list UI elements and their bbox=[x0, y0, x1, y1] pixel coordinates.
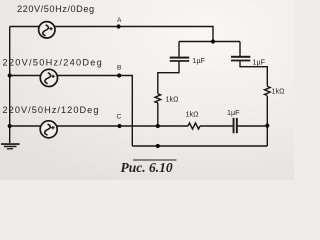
wire phase A horizontal bbox=[10, 27, 213, 42]
svg-text:220V/50Hz/0Deg: 220V/50Hz/0Deg bbox=[17, 4, 95, 14]
wire left rail bbox=[9, 27, 11, 144]
wire bottom return bbox=[132, 145, 267, 147]
resistor R3 horizontal zigzag bbox=[188, 123, 200, 129]
caption overline bbox=[133, 159, 177, 161]
capacitor C1 plates bbox=[170, 57, 190, 59]
wire phase C between resistor and capacitor bbox=[200, 125, 233, 127]
AC source V3 bbox=[40, 121, 57, 138]
svg-text:1kΩ: 1kΩ bbox=[166, 95, 180, 104]
ground bbox=[1, 143, 20, 145]
svg-text:A: A bbox=[117, 17, 122, 24]
junction dot R1 / wire C bbox=[156, 124, 160, 128]
wire capacitor C2 top lead bbox=[239, 42, 241, 57]
node C junction dot bbox=[117, 124, 121, 128]
svg-text:Рuc. 6.10: Рuc. 6.10 bbox=[121, 160, 173, 175]
svg-text:B: B bbox=[117, 65, 122, 72]
AC source V1 bbox=[39, 22, 55, 38]
svg-text:C: C bbox=[117, 114, 122, 121]
resistor R2 vertical zigzag bbox=[264, 86, 270, 95]
wire R1 bottom lead bbox=[157, 103, 159, 126]
wire capacitor C1 top lead bbox=[178, 42, 180, 57]
wire capacitor C2 bottom lead with jog bbox=[240, 61, 267, 86]
junction dot node X bbox=[265, 124, 269, 128]
node A junction dot bbox=[117, 24, 121, 28]
wire phase B horizontal and drop bbox=[10, 76, 133, 147]
wire A-net horizontal between capacitors bbox=[179, 41, 240, 43]
wire R2 bottom lead to node X bbox=[266, 96, 268, 146]
capacitor C3 plates horizontal bbox=[233, 118, 235, 133]
AC source V2 bbox=[40, 69, 57, 86]
wire capacitor C1 bottom lead with jog bbox=[158, 62, 179, 94]
capacitor C2 plates bbox=[231, 56, 250, 58]
figure caption bbox=[121, 160, 177, 175]
svg-text:1kΩ: 1kΩ bbox=[186, 110, 200, 119]
resistor R1 vertical zigzag bbox=[155, 94, 161, 103]
junction dot bottom wire bbox=[156, 144, 160, 148]
svg-text:220V/50Hz/240Deg: 220V/50Hz/240Deg bbox=[3, 58, 104, 68]
junction dot rail B bbox=[8, 73, 12, 77]
svg-text:1kΩ: 1kΩ bbox=[272, 87, 286, 96]
wire phase C right part to node X bbox=[238, 125, 268, 127]
svg-text:1µF: 1µF bbox=[193, 56, 206, 65]
node B junction dot bbox=[117, 73, 121, 77]
svg-text:220V/50Hz/120Deg: 220V/50Hz/120Deg bbox=[3, 105, 100, 115]
svg-text:1µF: 1µF bbox=[227, 108, 240, 117]
wire phase C horizontal left part bbox=[10, 125, 188, 127]
junction dot rail C bbox=[8, 124, 12, 128]
paper background bbox=[0, 0, 294, 180]
svg-text:1µF: 1µF bbox=[253, 58, 266, 67]
junction dot A-net bbox=[211, 39, 215, 43]
